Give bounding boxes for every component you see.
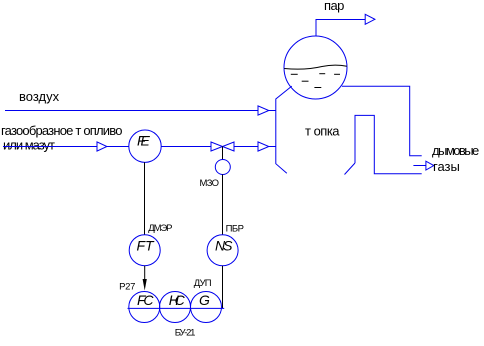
signal МЗО to NS (222, 175, 224, 235)
hand control HC circle (160, 292, 191, 323)
fuel line segment 3 (161, 146, 211, 148)
air arrow into furnace (258, 106, 269, 115)
water dash 4 (302, 80, 309, 82)
air line tail (269, 110, 276, 112)
switch NS circle (207, 235, 238, 266)
water level line (284, 65, 347, 69)
svg-text:ДУП: ДУП (194, 278, 212, 289)
fuel line segment 1 (3, 146, 97, 148)
water dash 1 (291, 73, 298, 75)
signal FT to FC (144, 266, 146, 281)
flue gas arrowhead (426, 161, 434, 170)
svg-text:газообразное т опливо: газообразное т опливо (1, 123, 122, 138)
steam line (316, 20, 365, 37)
svg-text:воздух: воздух (19, 89, 60, 104)
fuel arrow 1 (97, 142, 107, 151)
fuel line tail (269, 146, 276, 148)
svg-text:ПБР: ПБР (226, 224, 244, 235)
svg-text:FE: FE (137, 132, 151, 148)
steam arrow (365, 14, 375, 24)
furnace partition (355, 115, 422, 173)
fuel line segment 2 (107, 146, 129, 148)
svg-text:FC: FC (137, 292, 154, 308)
indicator G circle (191, 292, 222, 323)
flow element FE circle (129, 130, 161, 162)
svg-text:HC: HC (169, 292, 186, 308)
signal valve to МЗО (222, 147, 224, 160)
water dash 3 (334, 73, 340, 75)
furnace left wall (276, 86, 292, 173)
svg-text:пар: пар (324, 0, 344, 13)
flue gas arrow line (413, 165, 426, 167)
actuator МЗО circle (215, 160, 230, 175)
svg-text:FT: FT (137, 238, 156, 254)
svg-text:G: G (199, 292, 210, 308)
boiler drum (284, 36, 347, 99)
panel chord line (128, 307, 225, 309)
control valve left triangle (211, 142, 223, 151)
furnace floor diagonal (345, 163, 356, 175)
control valve right triangle (223, 142, 235, 151)
svg-text:NS: NS (215, 238, 233, 254)
controller FC circle (129, 292, 160, 323)
arrow into FC (143, 279, 147, 291)
signal FE to FT (144, 162, 146, 234)
svg-text:МЗО: МЗО (200, 178, 219, 189)
fuel line segment 4 (234, 146, 258, 148)
signal NS to panel (222, 266, 224, 309)
transmitter FT circle (129, 235, 160, 266)
svg-text:ДМЭР: ДМЭР (148, 223, 172, 234)
svg-text:Р27: Р27 (119, 281, 135, 292)
svg-text:газы: газы (433, 159, 460, 174)
water dash 5 (314, 87, 321, 89)
svg-text:или мазут: или мазут (3, 138, 55, 153)
air line (5, 110, 258, 112)
svg-text:т опка: т опка (305, 123, 340, 138)
drum outlet to flue duct (342, 86, 422, 155)
svg-text:дымовые: дымовые (432, 143, 479, 158)
fuel arrow into furnace (258, 142, 269, 151)
water dash 2 (319, 73, 325, 75)
svg-text:БУ-21: БУ-21 (175, 327, 195, 338)
